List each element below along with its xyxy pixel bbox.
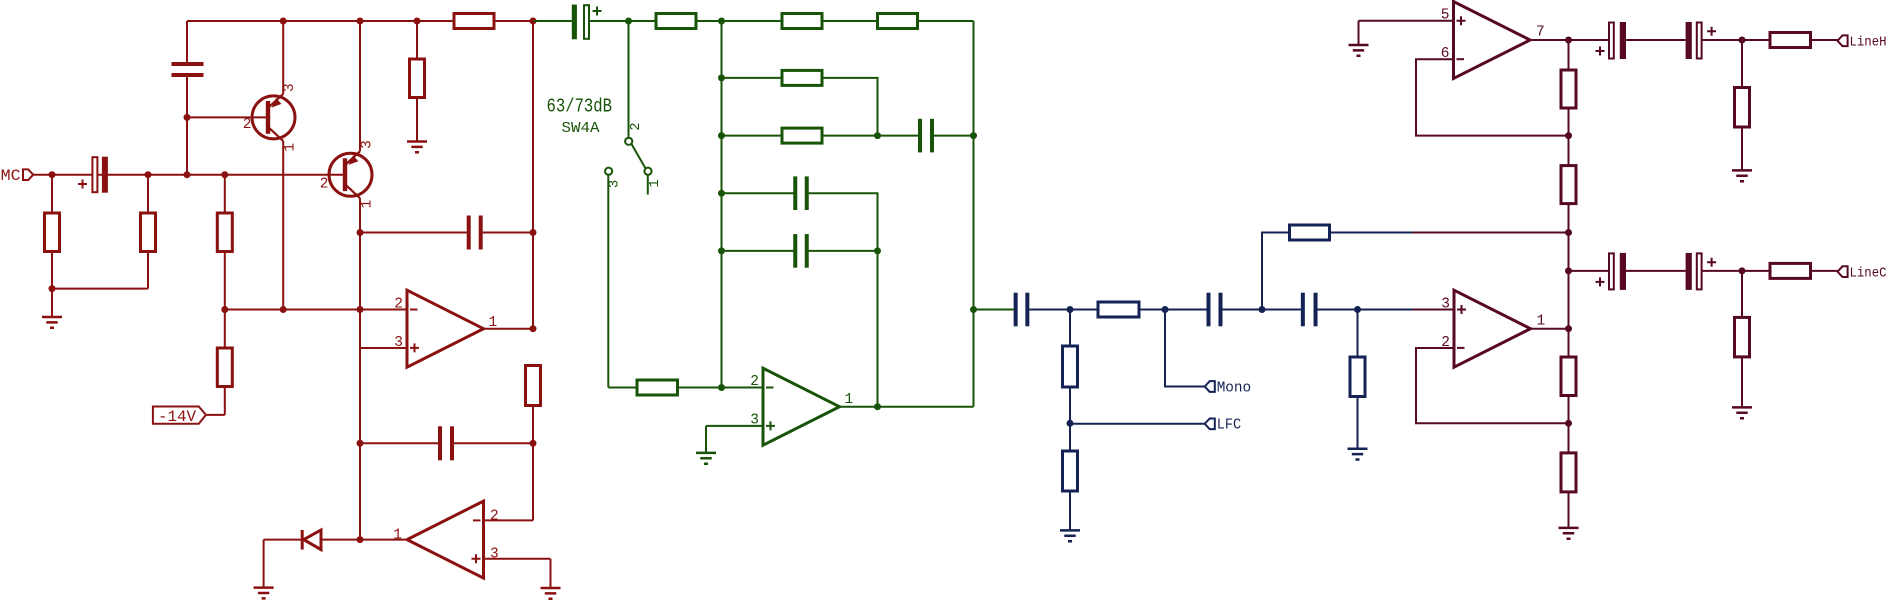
resistor R16 (to LineC amp) — [1290, 225, 1330, 240]
wire row2 left — [722, 77, 783, 79]
wire R2 top pin — [147, 175, 149, 213]
input connector MC — [23, 169, 33, 180]
capacitor C11 — [1301, 293, 1318, 327]
junction base column/MC row — [184, 171, 191, 178]
svg-text:3: 3 — [1441, 297, 1450, 313]
wire C13 to R23 — [1702, 39, 1770, 41]
C15 plus mark — [1707, 258, 1716, 267]
wire R1-R2 bottom link — [52, 288, 148, 290]
wire row1 to right column — [916, 20, 974, 22]
op-amp U3 triangle — [763, 368, 840, 445]
resistor R7 (U1 output divider) — [526, 366, 541, 406]
wire diode ground stem — [263, 540, 265, 588]
connector LineC — [1838, 266, 1848, 277]
wire R15 left — [1070, 309, 1098, 311]
svg-text:1: 1 — [283, 143, 299, 152]
wire R26 top pin — [1741, 271, 1743, 318]
junction row5 left — [718, 247, 725, 254]
junction U3 output mid column — [874, 403, 881, 410]
wire R22 top pin — [1568, 423, 1570, 453]
wire U4 output — [1530, 39, 1569, 41]
wire R15 to C10 — [1139, 309, 1207, 311]
wire R18 to ground — [1357, 397, 1359, 449]
wire R17 top pin — [1069, 423, 1071, 451]
ground LFC divider — [1060, 530, 1080, 541]
wire mid column to output — [877, 251, 879, 407]
svg-text:MC: MC — [1, 167, 21, 185]
wire C11 right — [1318, 309, 1414, 311]
wire R6 to ground — [416, 98, 418, 142]
resistor R2 — [141, 213, 156, 252]
wire U1 output — [484, 328, 534, 330]
svg-text:LineH: LineH — [1850, 36, 1887, 51]
wire C14 to C15 — [1626, 270, 1686, 272]
wire top rail left part — [187, 20, 454, 22]
wire R2 bottom pin — [147, 252, 149, 289]
junction R18 top — [1354, 306, 1361, 313]
ground LineH shunt — [1732, 170, 1752, 181]
ground R18 — [1348, 449, 1368, 460]
ground LineC shunt — [1732, 407, 1752, 418]
wire U5 feedback — [1416, 348, 1569, 423]
wire R16 branch — [1262, 233, 1290, 310]
junction row2 left — [718, 74, 725, 81]
wire U5 output — [1531, 328, 1569, 330]
ground divider — [1559, 528, 1579, 539]
ground below R6 — [407, 142, 427, 153]
wire row3 to C6 — [878, 135, 919, 137]
wire C6 to right column — [934, 135, 974, 137]
wire right column vertical — [973, 21, 975, 407]
wire R14 bottom pin — [1069, 387, 1071, 423]
wire U3 non-inverting input — [706, 425, 763, 427]
wire to blue section — [974, 309, 1014, 311]
resistor R10 (filter row1 c) — [878, 14, 918, 29]
op-amp U5 triangle — [1454, 290, 1531, 367]
junction row3 mid column — [874, 132, 881, 139]
ground U2 +input — [541, 588, 561, 599]
junction ladder column bottom — [718, 384, 725, 391]
wire to U5 +input — [1412, 309, 1454, 311]
resistor R23 (LineH series) — [1770, 33, 1811, 48]
wire R20 bottom pin — [1568, 204, 1570, 233]
junction row5 mid column — [874, 247, 881, 254]
wire R24 to ground — [1741, 127, 1743, 170]
wire MC input row — [33, 174, 343, 176]
wire row3 mid — [821, 135, 878, 137]
svg-text:SW4A: SW4A — [562, 120, 600, 137]
wire C3 to right column — [483, 232, 533, 234]
wire to -14V flag — [206, 414, 225, 416]
transistor Q1 body — [252, 96, 295, 139]
wire row5 left — [722, 250, 794, 252]
wire row5 right — [809, 250, 878, 252]
svg-text:1: 1 — [845, 392, 854, 408]
connector LineH — [1838, 35, 1848, 46]
junction R16 column — [1259, 306, 1266, 313]
svg-text:2: 2 — [394, 297, 403, 313]
capacitor C1 electrolytic plates — [92, 157, 97, 192]
wire U4 non-inverting input — [1359, 20, 1454, 22]
junction right column/C3 — [530, 229, 537, 236]
wire row4 left — [722, 192, 794, 194]
transistor Q2 body — [329, 153, 372, 196]
wire R6 top pin — [416, 21, 418, 59]
svg-text:1: 1 — [489, 315, 498, 331]
wire to divider mid — [1412, 232, 1569, 234]
wire R7 bottom pin — [532, 406, 534, 444]
svg-text:6: 6 — [1441, 46, 1450, 62]
wire Q2 emitter down — [359, 198, 361, 232]
wire divider column mid — [1568, 233, 1570, 329]
junction R7/C4 — [530, 440, 537, 447]
capacitor C4 — [438, 426, 454, 460]
junction LineH shunt — [1739, 37, 1746, 44]
wire Q1 emitter to rail — [282, 21, 284, 94]
wire R21 top pin — [1568, 329, 1570, 357]
junction LineC shunt — [1739, 267, 1746, 274]
wire row3 left — [722, 135, 783, 137]
resistor R9 (filter row1 b) — [782, 14, 822, 29]
svg-text:2: 2 — [750, 374, 759, 390]
wire base column vertical — [186, 76, 188, 175]
junction R3/R4 — [221, 306, 228, 313]
wire to Mono connector — [1165, 310, 1205, 387]
C1 plus mark — [78, 180, 87, 189]
op-amp U1 triangle — [407, 290, 484, 367]
wire R14 top pin — [1069, 310, 1071, 347]
wire feedback column vertical — [359, 233, 361, 540]
wire row2 right corner — [821, 78, 878, 136]
junction rail end — [530, 18, 537, 25]
junction R2 top — [145, 171, 152, 178]
svg-text:3: 3 — [282, 83, 298, 92]
wire R20 top pin — [1568, 136, 1570, 166]
junction rail/Q2 collector — [357, 18, 364, 25]
svg-text:1: 1 — [393, 528, 402, 544]
capacitor C10 — [1207, 293, 1223, 327]
resistor R15 (series) — [1098, 302, 1139, 317]
connector LFC — [1205, 418, 1215, 429]
svg-text:2: 2 — [320, 177, 329, 193]
wire R3 top pin — [224, 175, 226, 213]
svg-text:5: 5 — [1441, 8, 1450, 24]
wire R25 to LineC — [1811, 270, 1838, 272]
resistor R26 (LineC shunt) — [1735, 317, 1750, 357]
junction Mono tap — [1162, 306, 1169, 313]
wire emitter to C3 — [360, 232, 467, 234]
wire C2 top pin — [186, 21, 188, 64]
resistor R4 — [217, 348, 232, 387]
wire to R12 — [608, 387, 637, 389]
junction rail/Q1 collector — [280, 18, 287, 25]
wire to U3 inverting input — [722, 387, 764, 389]
wire ground stem — [51, 289, 53, 317]
junction U5 output — [1565, 325, 1572, 332]
wire R4 bottom pin — [224, 387, 226, 415]
wire U4 +in ground stem — [1358, 21, 1360, 45]
wire R22 to ground — [1568, 492, 1570, 528]
svg-text:1: 1 — [647, 179, 663, 187]
capacitor C13 electrolytic (LineH b) — [1686, 22, 1692, 59]
junction switch column top — [625, 18, 632, 25]
svg-text:7: 7 — [1536, 25, 1545, 41]
junction Q2 emitter — [357, 229, 364, 236]
junction rail/R6 — [414, 18, 421, 25]
wire R3 bottom pin — [224, 252, 226, 310]
ground U4 +input — [1349, 45, 1369, 56]
resistor R6 (rail to ground) — [410, 59, 425, 98]
wire C15 to R25 — [1702, 270, 1770, 272]
wire U3 output — [840, 406, 974, 408]
junction U1 output — [530, 325, 537, 332]
svg-text:3: 3 — [490, 546, 499, 562]
capacitor C15 electrolytic (LineC b) — [1686, 253, 1692, 290]
junction U4 output — [1565, 37, 1572, 44]
capacitor C3 — [467, 216, 483, 250]
wire top rail right part — [494, 20, 533, 22]
wire R8 to R9 — [696, 20, 782, 22]
svg-text:2: 2 — [1441, 335, 1450, 351]
junction row4 left — [718, 190, 725, 197]
wire R23 to LineH — [1811, 39, 1838, 41]
wire U2 +in ground stem — [550, 559, 552, 588]
C13 plus mark — [1707, 27, 1716, 36]
switch pin1 stub wire — [647, 175, 649, 194]
resistor R1 (MC input to ground) — [45, 213, 60, 252]
resistor R18 (shunt) — [1350, 357, 1365, 397]
junction C4 left column — [357, 440, 364, 447]
wire R21 bottom pin — [1568, 396, 1570, 424]
resistor R19 — [1561, 70, 1576, 108]
connector Mono — [1205, 381, 1215, 392]
wire Q1 collector down — [282, 141, 284, 310]
wire Q2 collector to rail — [359, 21, 361, 151]
junction feedback column row — [357, 306, 364, 313]
junction Q1 collector row — [280, 306, 287, 313]
wire U2 inv input up — [532, 443, 534, 520]
capacitor C2 (rail to base) — [172, 62, 204, 77]
junction right column to blue cap — [970, 306, 977, 313]
svg-text:LFC: LFC — [1217, 418, 1242, 434]
svg-text:1: 1 — [1537, 314, 1546, 330]
capacitor C7 (row4) — [793, 176, 809, 210]
junction U2 output/diode — [357, 536, 364, 543]
junction row3 left — [718, 132, 725, 139]
resistor R24 (LineH shunt) — [1735, 88, 1750, 128]
resistor R12 (filter row3) — [782, 128, 822, 143]
C5 plus mark — [593, 7, 602, 16]
wire C4 right — [454, 442, 533, 444]
wire Q1 base — [187, 116, 266, 118]
resistor R13 (U3 input) — [637, 380, 678, 395]
wire rail to C5 — [534, 20, 572, 22]
C12 plus mark — [1596, 47, 1605, 56]
wire C9 to R14 — [1029, 309, 1070, 311]
op-amp U2 triangle — [407, 501, 484, 578]
wire U4 feedback — [1416, 59, 1569, 135]
wire diode anode side — [321, 539, 360, 541]
resistor R8 (filter row1 a) — [656, 14, 696, 29]
C14 plus mark — [1596, 277, 1605, 286]
wire R4 top pin — [224, 310, 226, 349]
svg-text:3: 3 — [394, 335, 403, 351]
power flag -14V — [153, 407, 206, 424]
wire to LFC connector — [1070, 423, 1205, 425]
ground U3 +input — [696, 453, 716, 464]
junction R19/R20 feedback — [1565, 132, 1572, 139]
wire right column vertical — [532, 21, 534, 329]
diode D1 — [301, 530, 304, 550]
svg-text:2: 2 — [628, 122, 644, 130]
svg-text:3: 3 — [359, 140, 375, 149]
capacitor C9 plates — [1014, 293, 1030, 327]
wire U2 inverting input — [484, 519, 534, 521]
junction R21/R22 — [1565, 420, 1572, 427]
ground below diode — [254, 588, 274, 599]
resistor R3 — [217, 213, 232, 252]
svg-text:Mono: Mono — [1217, 380, 1252, 396]
capacitor C8 (row5) — [793, 234, 809, 268]
wire U4 out to C12 — [1569, 39, 1610, 41]
wire U2 output — [360, 539, 407, 541]
junction ladder column top — [718, 18, 725, 25]
wire ladder column vertical — [721, 21, 723, 388]
wire U1 non-inverting input — [360, 347, 407, 349]
resistor R20 — [1561, 166, 1576, 204]
wire C12 to C13 — [1626, 39, 1686, 41]
wire diode cathode side — [264, 539, 302, 541]
junction R20/R16 row — [1565, 229, 1572, 236]
wire R17 to ground — [1069, 491, 1071, 530]
junction LineC row — [1565, 267, 1572, 274]
resistor R21 — [1561, 357, 1576, 396]
junction MC/R1 — [49, 171, 56, 178]
wire U3 +in ground stem — [705, 426, 707, 453]
junction LFC tap — [1067, 420, 1074, 427]
svg-text:2: 2 — [243, 117, 252, 133]
resistor R11 (filter row2) — [782, 70, 822, 85]
switch SW4A — [625, 138, 632, 145]
wire R24 top pin — [1741, 40, 1743, 88]
junction R3 top — [221, 171, 228, 178]
wire mid column rows4-5 — [877, 193, 879, 251]
wire switch pin3 down — [607, 175, 609, 387]
svg-text:63/73dB: 63/73dB — [547, 96, 613, 118]
resistor R14 body — [1063, 346, 1078, 387]
wire R1 top pin — [51, 175, 53, 213]
svg-text:3: 3 — [750, 412, 759, 428]
wire row4 right corner — [809, 193, 878, 251]
ground below R1 — [42, 317, 62, 328]
wire U2 non-inverting input — [484, 558, 551, 560]
wire R16 to red section — [1330, 232, 1413, 234]
capacitor C6 (row3) — [918, 119, 934, 153]
junction R1/R2 bottom — [49, 285, 56, 292]
wire R1 bottom pin — [51, 252, 53, 289]
junction Q1 base tap — [184, 114, 191, 121]
svg-text:LineC: LineC — [1850, 266, 1887, 281]
svg-text:-14V: -14V — [158, 408, 196, 426]
wire R18 top pin — [1357, 310, 1359, 358]
wire R13 to ladder column — [678, 387, 722, 389]
resistor R25 (LineC series) — [1770, 263, 1811, 278]
wire C4 left — [360, 442, 438, 444]
junction right column row3 — [970, 132, 977, 139]
wire C10 to C11 — [1223, 309, 1302, 311]
wire R19 top pin — [1568, 40, 1570, 70]
junction LFC divider top — [1067, 306, 1074, 313]
op-amp U4 triangle — [1454, 2, 1531, 79]
wire R26 to ground — [1741, 357, 1743, 408]
resistor R22 — [1561, 453, 1576, 492]
wire R9 to R10 — [821, 20, 878, 22]
wire R19 bottom pin — [1568, 108, 1570, 136]
wire op-amp U1 inverting row — [225, 309, 407, 311]
wire to switch pin 2 — [628, 21, 630, 138]
svg-text:1: 1 — [360, 200, 376, 209]
wire divider to C14 — [1569, 270, 1610, 272]
resistor R17 (LFC divider lower) — [1063, 451, 1078, 491]
resistor R5 (rail series) — [454, 14, 494, 29]
svg-text:2: 2 — [490, 508, 499, 524]
wire C5 to R8 — [589, 20, 656, 22]
